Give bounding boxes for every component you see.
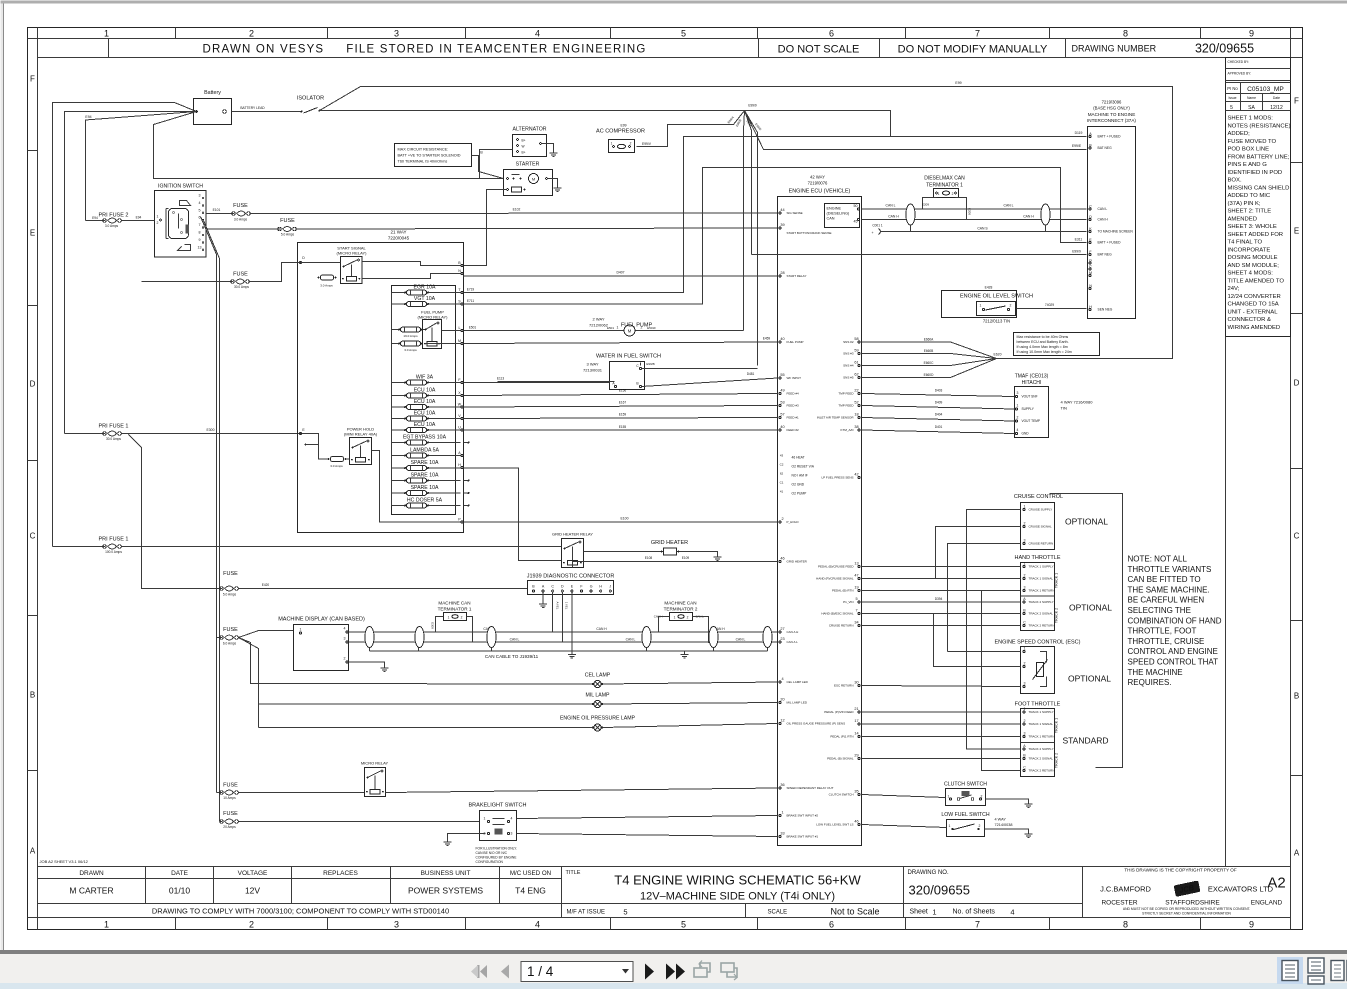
svg-text:36: 36 <box>780 783 784 787</box>
svg-text:27: 27 <box>780 627 784 631</box>
svg-text:TERMINATOR 1: TERMINATOR 1 <box>926 183 963 189</box>
svg-text:MACHINE DISPLAY (CAN BASED): MACHINE DISPLAY (CAN BASED) <box>278 617 365 623</box>
svg-text:2: 2 <box>249 29 254 39</box>
svg-text:J.C.BAMFORD: J.C.BAMFORD <box>1100 885 1151 894</box>
svg-text:M/F AT ISSUE: M/F AT ISSUE <box>567 910 605 916</box>
svg-text:HITACHI: HITACHI <box>1022 380 1042 386</box>
fusebox fuse rows <box>392 285 470 508</box>
svg-text:43: 43 <box>780 454 784 458</box>
svg-text:E300: E300 <box>207 428 215 432</box>
svg-text:Date: Date <box>1273 96 1280 100</box>
row letter band right <box>1291 97 1303 858</box>
svg-text:C05103_MP: C05103_MP <box>1247 86 1284 93</box>
svg-text:TMP FEED: TMP FEED <box>838 392 854 396</box>
svg-text:E660D: E660D <box>924 373 934 377</box>
svg-text:3: 3 <box>1024 539 1026 543</box>
wire F BAT NEG <box>752 250 1087 255</box>
svg-text:12/24 CONVERTER: 12/24 CONVERTER <box>1228 294 1281 300</box>
title block <box>38 867 1291 918</box>
svg-text:1: 1 <box>104 920 109 930</box>
wires ESC taps <box>862 614 1021 687</box>
svg-text:BATT + FUSED: BATT + FUSED <box>1098 241 1122 245</box>
svg-text:01/10: 01/10 <box>169 886 191 896</box>
svg-text:GRID HEATER: GRID HEATER <box>787 560 808 564</box>
svg-text:E159: E159 <box>619 413 627 417</box>
svg-text:CAN L: CAN L <box>886 204 896 208</box>
svg-text:TIN: TIN <box>1061 406 1068 411</box>
header band cells <box>109 39 1255 58</box>
svg-text:O2 GND: O2 GND <box>792 483 805 487</box>
svg-text:O2 PUMP: O2 PUMP <box>792 492 808 496</box>
CAN ferrites lower <box>365 627 772 648</box>
svg-text:4: 4 <box>781 677 783 681</box>
svg-text:BRAKELIGHT SWITCH: BRAKELIGHT SWITCH <box>469 803 527 809</box>
svg-text:Max resistance to be 40m Ohms: Max resistance to be 40m Ohms <box>1017 335 1069 339</box>
svg-text:MICRO RELAY: MICRO RELAY <box>361 761 389 766</box>
alternator G1 <box>480 127 558 179</box>
svg-text:C: C <box>1023 766 1026 770</box>
svg-text:29: 29 <box>854 754 858 758</box>
CAN shield wire <box>871 224 1086 236</box>
svg-text:3: 3 <box>394 29 399 39</box>
svg-text:DO NOT MODIFY MANUALLY: DO NOT MODIFY MANUALLY <box>898 44 1048 56</box>
fuel pump micro relay K2 <box>392 310 461 353</box>
svg-text:ENGINE ECU (VEHICLE): ENGINE ECU (VEHICLE) <box>789 189 851 195</box>
svg-text:5: 5 <box>623 908 627 917</box>
svg-text:PEDAL (P)/VIN FEED: PEDAL (P)/VIN FEED <box>824 710 854 714</box>
svg-text:2: 2 <box>952 192 954 196</box>
svg-text:3: 3 <box>1024 682 1026 686</box>
svg-text:1: 1 <box>448 616 450 620</box>
svg-text:SNS #4: SNS #4 <box>843 364 854 368</box>
ECU right pins <box>816 337 860 827</box>
svg-text:COMBINATION OF HAND: COMBINATION OF HAND <box>1128 616 1222 625</box>
wire battery feeds left <box>53 103 504 547</box>
svg-text:BAT NEG: BAT NEG <box>1098 253 1113 257</box>
svg-text:42 WAY: 42 WAY <box>810 175 825 180</box>
svg-text:CRUISE RETURN: CRUISE RETURN <box>1029 542 1054 546</box>
svg-text:M: M <box>532 177 535 182</box>
svg-text:2: 2 <box>641 326 643 330</box>
svg-text:TRACK 2 RETURN: TRACK 2 RETURN <box>1029 769 1055 773</box>
svg-text:2: 2 <box>157 221 159 225</box>
fuse 10 amps micro relay <box>217 783 365 801</box>
svg-text:5: 5 <box>681 29 686 39</box>
svg-text:100.0 Amps: 100.0 Amps <box>105 550 122 554</box>
fuse E101 3 amps <box>206 203 778 222</box>
fuse 20 amps brakelight <box>220 811 480 829</box>
svg-text:FEED #4: FEED #4 <box>787 392 800 396</box>
svg-text:FEED #3: FEED #3 <box>787 404 800 408</box>
svg-text:(37A) PIN K;: (37A) PIN K; <box>1228 201 1261 207</box>
copyright cell and JCB logo <box>1100 868 1286 916</box>
svg-text:E99: E99 <box>955 81 961 85</box>
svg-text:SA: SA <box>1248 105 1255 111</box>
svg-text:3.0 Amps: 3.0 Amps <box>330 464 343 468</box>
svg-text:PEDAL (P)1 RTN: PEDAL (P)1 RTN <box>830 735 853 739</box>
svg-text:TRACK 2 SIGNAL: TRACK 2 SIGNAL <box>1029 757 1054 761</box>
svg-text:44: 44 <box>780 208 784 212</box>
svg-text:(MICRO RELAY): (MICRO RELAY) <box>418 315 449 320</box>
svg-text:D407: D407 <box>616 271 624 275</box>
svg-text:THE SAME MACHINE.: THE SAME MACHINE. <box>1128 585 1210 594</box>
svg-text:3: 3 <box>1024 586 1026 590</box>
svg-text:M CARTER: M CARTER <box>69 886 113 896</box>
svg-text:KTM_A/D: KTM_A/D <box>840 428 854 432</box>
drawing title text <box>614 873 861 903</box>
svg-text:TRACK 2: TRACK 2 <box>1055 608 1059 623</box>
svg-text:19.0 Amps: 19.0 Amps <box>403 334 418 338</box>
svg-text:Name: Name <box>1247 96 1256 100</box>
svg-text:46: 46 <box>854 820 858 824</box>
svg-text:FUSE: FUSE <box>280 218 295 224</box>
svg-text:CAN L: CAN L <box>626 638 636 642</box>
svg-text:Not to Scale: Not to Scale <box>831 907 880 917</box>
wires ECU to hand throttle <box>862 567 1021 626</box>
svg-text:HAND (B)/ESC SIGNAL: HAND (B)/ESC SIGNAL <box>821 612 854 616</box>
svg-text:8: 8 <box>199 231 201 235</box>
svg-text:5: 5 <box>199 208 201 212</box>
svg-text:FOOT THROTTLE: FOOT THROTTLE <box>1015 702 1061 708</box>
TMAF CE013 Hitachi sensor <box>1015 374 1094 438</box>
svg-text:THROTTLE, CRUISE: THROTTLE, CRUISE <box>1128 637 1205 646</box>
svg-text:1: 1 <box>1024 505 1026 509</box>
svg-text:62: 62 <box>854 373 858 377</box>
svg-text:CRUISE RETURN: CRUISE RETURN <box>829 624 854 628</box>
svg-text:MIL LAMP LED: MIL LAMP LED <box>787 701 808 705</box>
svg-text:CHANGED TO 15A: CHANGED TO 15A <box>1228 302 1279 308</box>
svg-text:STRICTLY SECRET AND CONFIDENTI: STRICTLY SECRET AND CONFIDENTIAL INFORMA… <box>1142 912 1231 916</box>
svg-text:WATER IN FUEL SWITCH: WATER IN FUEL SWITCH <box>596 354 661 360</box>
svg-text:AC COMPRESSOR: AC COMPRESSOR <box>596 129 645 135</box>
svg-text:E: E <box>30 229 35 238</box>
sheet version note <box>40 859 89 864</box>
svg-text:(DIESELING): (DIESELING) <box>827 212 851 216</box>
low fuel switch <box>862 812 1033 838</box>
svg-text:D: D <box>30 380 36 389</box>
svg-text:1: 1 <box>1024 562 1026 566</box>
svg-text:7: 7 <box>975 29 980 39</box>
row letter band left <box>28 75 38 856</box>
MIL lamp <box>259 693 778 708</box>
engine speed control connector <box>995 640 1112 694</box>
svg-text:ENGINE: ENGINE <box>827 207 842 211</box>
svg-text:46: 46 <box>780 557 784 561</box>
PRI FUSE 1 (30A) <box>65 424 304 589</box>
wire pin T to interconnect A <box>464 137 891 293</box>
wire ignition to fuse column <box>201 217 220 822</box>
svg-text:HAND THROTTLE: HAND THROTTLE <box>1014 555 1060 561</box>
svg-text:CONFIGURED BY ENGINE: CONFIGURED BY ENGINE <box>476 856 518 860</box>
svg-text:ENGLAND: ENGLAND <box>1251 900 1283 907</box>
svg-text:30: 30 <box>854 681 858 685</box>
svg-text:2: 2 <box>249 920 254 930</box>
svg-text:THROTTLE VARIANTS: THROTTLE VARIANTS <box>1128 565 1212 574</box>
svg-text:55: 55 <box>780 373 784 377</box>
svg-text:INLET AIR TEMP SENSOR: INLET AIR TEMP SENSOR <box>817 416 855 420</box>
svg-text:D394: D394 <box>935 597 943 601</box>
svg-text:1: 1 <box>938 192 940 196</box>
AC compressor <box>596 124 652 153</box>
revision notes text <box>1228 116 1291 331</box>
svg-text:P_HOLD: P_HOLD <box>787 520 800 524</box>
svg-text:A: A <box>1294 849 1300 858</box>
svg-text:MIL LAMP: MIL LAMP <box>585 693 610 699</box>
svg-text:SNS #2: SNS #2 <box>843 340 854 344</box>
svg-text:7219/3096: 7219/3096 <box>1102 100 1122 105</box>
svg-text:ADDED;: ADDED; <box>1228 131 1251 137</box>
column number band bottom <box>104 918 1254 930</box>
svg-text:AND MUST NOT BE COPIED OR REPR: AND MUST NOT BE COPIED OR REPRODUCED WIT… <box>1123 907 1250 911</box>
svg-text:1 YEL: 1 YEL <box>565 602 569 610</box>
svg-text:74029: 74029 <box>1045 303 1054 307</box>
svg-text:E99/V: E99/V <box>642 142 652 146</box>
svg-text:C1: C1 <box>780 481 784 485</box>
svg-text:34: 34 <box>854 621 858 625</box>
svg-text:ROCESTER: ROCESTER <box>1101 900 1137 907</box>
svg-text:320/09655: 320/09655 <box>1195 42 1254 56</box>
svg-text:STARTER: STARTER <box>516 162 540 168</box>
svg-text:TMAF (CE013): TMAF (CE013) <box>1015 374 1049 380</box>
svg-text:SHEET 1 MODS:: SHEET 1 MODS: <box>1228 116 1274 122</box>
svg-text:4: 4 <box>199 201 201 205</box>
svg-text:PINS E AND G: PINS E AND G <box>1228 162 1268 168</box>
svg-text:No. of Sheets: No. of Sheets <box>953 909 996 916</box>
comply note row <box>152 907 628 917</box>
svg-text:7220/0045: 7220/0045 <box>388 236 410 241</box>
svg-text:5: 5 <box>1230 105 1233 111</box>
svg-text:9: 9 <box>199 238 201 242</box>
svg-text:FUSE: FUSE <box>223 571 238 577</box>
CAN L bus wire lower <box>349 638 778 643</box>
engine ECU (vehicle) box <box>778 175 862 846</box>
svg-text:TRACK 1: TRACK 1 <box>1055 573 1059 588</box>
svg-text:E102: E102 <box>513 208 521 212</box>
machine display (CAN based) <box>278 617 388 672</box>
svg-text:between ECU and Battery Earth.: between ECU and Battery Earth. <box>1017 340 1069 344</box>
svg-text:REQUIRES.: REQUIRES. <box>1128 678 1172 687</box>
svg-text:E94: E94 <box>92 216 98 220</box>
svg-text:2: 2 <box>630 142 632 146</box>
hand throttle connector <box>1014 555 1112 631</box>
svg-text:PRI FUSE 2: PRI FUSE 2 <box>99 213 129 219</box>
svg-text:E501F: E501F <box>647 326 656 330</box>
svg-text:DRAWING NUMBER: DRAWING NUMBER <box>1072 44 1157 54</box>
svg-text:ALTERNATOR: ALTERNATOR <box>512 127 546 133</box>
PRI FUSE 2 <box>86 213 155 229</box>
svg-text:1: 1 <box>781 811 783 815</box>
CAN cable note <box>485 654 539 659</box>
svg-text:22: 22 <box>854 389 858 393</box>
svg-text:14: 14 <box>854 732 858 736</box>
svg-text:E660B: E660B <box>924 349 934 353</box>
svg-text:TITLE AMENDED TO: TITLE AMENDED TO <box>1228 278 1285 284</box>
svg-text:CAN: CAN <box>827 217 835 221</box>
svg-text:T4 ENG: T4 ENG <box>515 886 546 896</box>
svg-text:D409: D409 <box>935 401 943 405</box>
svg-text:HAND (P)/CRUISE SIGNAL: HAND (P)/CRUISE SIGNAL <box>816 577 854 581</box>
fuel pump FP1 <box>464 317 744 337</box>
svg-text:7213/0031: 7213/0031 <box>583 368 603 373</box>
svg-text:BATTERY LEAD: BATTERY LEAD <box>240 106 265 110</box>
svg-text:FOR ILLUSTRATION ONLY.: FOR ILLUSTRATION ONLY. <box>476 847 518 851</box>
svg-text:6.0 Amps: 6.0 Amps <box>223 642 237 646</box>
start signal micro relay K1 <box>142 246 461 290</box>
svg-text:M/C USED ON: M/C USED ON <box>510 870 551 877</box>
title block values <box>69 886 545 896</box>
svg-text:SIG SENSE: SIG SENSE <box>787 211 803 215</box>
svg-text:ISOLATOR: ISOLATOR <box>297 96 324 102</box>
isolator switch <box>232 81 1173 359</box>
svg-text:17: 17 <box>854 719 858 723</box>
svg-text:SHEET 2: TITLE: SHEET 2: TITLE <box>1228 209 1272 215</box>
svg-text:VOUT TEMP: VOUT TEMP <box>1022 419 1040 423</box>
svg-text:CONNECTOR &: CONNECTOR & <box>1228 317 1271 323</box>
wire P hold E100 <box>464 517 778 523</box>
svg-text:52: 52 <box>854 401 858 405</box>
svg-text:MACHINE CAN: MACHINE CAN <box>438 601 470 606</box>
svg-text:9: 9 <box>1249 920 1254 930</box>
svg-text:A: A <box>30 847 36 856</box>
svg-text:APPROVED BY:: APPROVED BY: <box>1228 72 1252 76</box>
svg-text:Sheet: Sheet <box>910 909 928 916</box>
clutch switch <box>862 782 1033 808</box>
wires ECU feed fuses <box>464 389 778 431</box>
svg-text:7214/0038: 7214/0038 <box>995 823 1013 827</box>
svg-text:SELECTING THE: SELECTING THE <box>1128 606 1191 615</box>
svg-text:LOW FUEL SWITCH: LOW FUEL SWITCH <box>941 812 989 818</box>
svg-text:FUSE MOVED TO: FUSE MOVED TO <box>1228 139 1277 145</box>
svg-text:40: 40 <box>780 425 784 429</box>
svg-text:F: F <box>30 75 35 84</box>
CAN H bus wire lower <box>349 627 778 632</box>
svg-text:2: 2 <box>1024 522 1026 526</box>
cruise control connector <box>1014 494 1108 550</box>
svg-text:CEL LAMP: CEL LAMP <box>585 673 611 679</box>
svg-text:CHECKED BY:: CHECKED BY: <box>1228 60 1250 64</box>
svg-text:Issue: Issue <box>1228 96 1236 100</box>
svg-text:OPTIONAL: OPTIONAL <box>1065 517 1108 527</box>
svg-text:POWER SYSTEMS: POWER SYSTEMS <box>408 886 483 896</box>
svg-text:12V–MACHINE SIDE ONLY (T4i: 12V–MACHINE SIDE ONLY (T4i ONLY) <box>640 891 835 903</box>
svg-text:L: L <box>459 326 461 330</box>
svg-text:BRAKE SWT INPUT #2: BRAKE SWT INPUT #2 <box>787 814 819 818</box>
svg-text:E620: E620 <box>994 353 1002 357</box>
svg-text:58: 58 <box>854 337 858 341</box>
svg-text:40: 40 <box>780 337 784 341</box>
svg-text:FUSE: FUSE <box>223 783 238 789</box>
svg-text:12V: 12V <box>245 886 260 896</box>
svg-text:GRID HEATER: GRID HEATER <box>651 540 688 546</box>
svg-text:13: 13 <box>198 245 202 249</box>
svg-text:WF INPUT: WF INPUT <box>787 376 802 380</box>
svg-text:5.0 Amps: 5.0 Amps <box>281 233 295 237</box>
svg-text:POD BOX LINE: POD BOX LINE <box>1228 147 1270 153</box>
21 way fuse box 7220/0045 <box>298 230 464 533</box>
svg-text:6: 6 <box>199 216 201 220</box>
svg-text:FUSE: FUSE <box>223 811 238 817</box>
svg-text:7: 7 <box>975 920 980 930</box>
svg-text:61: 61 <box>854 361 858 365</box>
engine oil level switch <box>942 286 1087 324</box>
svg-text:1: 1 <box>1024 647 1026 651</box>
svg-text:D: D <box>561 585 564 589</box>
svg-text:CEL LAMP LED: CEL LAMP LED <box>787 680 809 684</box>
svg-text:5: 5 <box>681 920 686 930</box>
svg-text:+: + <box>871 231 873 235</box>
engine oil pressure lamp <box>259 716 778 732</box>
power hold mini relay K3 <box>299 427 460 523</box>
svg-text:MACHINE TO ENGINE: MACHINE TO ENGINE <box>1088 112 1136 117</box>
svg-text:CAN H: CAN H <box>596 627 607 631</box>
svg-text:H: H <box>599 585 602 589</box>
svg-text:3 WAY: 3 WAY <box>586 362 598 367</box>
svg-text:D: D <box>1294 379 1300 388</box>
svg-text:TO MACHINE SCREEN: TO MACHINE SCREEN <box>1098 230 1134 234</box>
svg-text:39: 39 <box>780 223 784 227</box>
revision block <box>1226 58 1291 867</box>
svg-text:CAN BE FITTED TO: CAN BE FITTED TO <box>1128 575 1201 584</box>
svg-text:B: B <box>1294 692 1299 701</box>
machine to engine interconnect 37A <box>1087 100 1136 319</box>
svg-text:TRACK 2 RETURN: TRACK 2 RETURN <box>1029 624 1055 628</box>
svg-text:57: 57 <box>780 413 784 417</box>
svg-text:OIL PRESS GAUGE PRESSURE (P) S: OIL PRESS GAUGE PRESSURE (P) SENS <box>787 722 846 726</box>
svg-text:1: 1 <box>948 795 950 799</box>
svg-text:CRUISE SUPPLY: CRUISE SUPPLY <box>1029 508 1053 512</box>
svg-text:REPLACES: REPLACES <box>323 870 358 877</box>
wire battery positive to interconnect A <box>745 111 1087 137</box>
svg-text:7212/0062: 7212/0062 <box>589 323 609 328</box>
svg-text:EXCAVATORS LTD: EXCAVATORS LTD <box>1208 885 1274 894</box>
title block headers <box>79 870 580 877</box>
ECU left pins <box>779 208 845 839</box>
svg-text:E156: E156 <box>619 389 627 393</box>
svg-text:1: 1 <box>300 628 302 632</box>
column number band top <box>104 28 1254 39</box>
svg-text:30.0 Amps: 30.0 Amps <box>234 285 249 289</box>
CAN ferrites top <box>906 204 1050 232</box>
svg-text:ADDED TO MIC: ADDED TO MIC <box>1228 193 1271 199</box>
svg-text:320/09655: 320/09655 <box>909 883 970 898</box>
svg-text:C001 1: C001 1 <box>872 224 883 228</box>
svg-text:1: 1 <box>484 817 486 821</box>
PRI FUSE 1 (100A) <box>53 537 562 555</box>
svg-text:E99/9: E99/9 <box>1072 250 1081 254</box>
svg-text:LOW FUEL LEVEL SWT LS: LOW FUEL LEVEL SWT LS <box>816 823 853 827</box>
svg-text:12: 12 <box>780 719 784 723</box>
svg-text:SUPPLY: SUPPLY <box>1022 407 1035 411</box>
svg-text:9: 9 <box>1249 29 1254 39</box>
svg-text:GND: GND <box>1022 432 1030 436</box>
svg-text:BATT +VE TO STARTER SOLENOID: BATT +VE TO STARTER SOLENOID <box>398 154 461 158</box>
wires foot throttle <box>862 591 1021 771</box>
wire pin S to interconnect E <box>464 168 1087 305</box>
machine CAN terminator 2 <box>654 601 709 644</box>
engine dieseling CAN sub box <box>825 204 860 228</box>
battery B1 <box>194 90 232 125</box>
svg-text:DRAWN: DRAWN <box>79 870 104 877</box>
svg-text:E109: E109 <box>682 556 690 560</box>
svg-text:CAN S: CAN S <box>977 227 988 231</box>
svg-text:BUSINESS UNIT: BUSINESS UNIT <box>421 870 471 877</box>
svg-text:E209: E209 <box>922 203 929 207</box>
svg-text:13: 13 <box>854 562 858 566</box>
svg-text:E99/B: E99/B <box>646 362 654 366</box>
svg-text:4: 4 <box>535 920 540 930</box>
svg-text:(BASE HSG ONLY): (BASE HSG ONLY) <box>1093 106 1130 111</box>
svg-text:38: 38 <box>854 425 858 429</box>
